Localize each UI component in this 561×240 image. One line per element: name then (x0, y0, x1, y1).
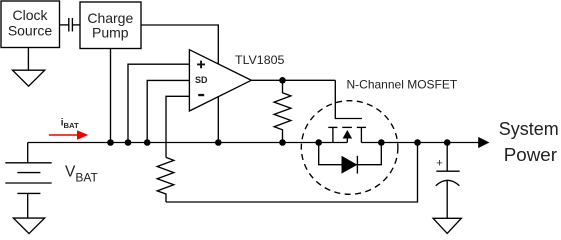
wire charge pump bottom to VBAT rail (110, 49, 112, 143)
junction output capacitor / rail (444, 139, 451, 146)
svg-text:Clock: Clock (12, 7, 48, 23)
body diode loop wire (319, 143, 382, 165)
battery plate long 1 (5, 162, 51, 164)
wire op-amp V- to rail (217, 96, 219, 142)
output capacitor C2 curved plate (436, 180, 460, 185)
resistor R1 (feedback divider) (157, 157, 174, 202)
wire clock source to ground (27, 48, 29, 71)
output capacitor C2 top plate (436, 170, 459, 172)
battery plate short 1 (17, 172, 40, 174)
output arrowhead (478, 137, 489, 148)
junction op-amp V- / rail (215, 139, 222, 146)
charge pump box (80, 2, 141, 49)
MOSFET Q1 body segment (342, 126, 352, 128)
iBAT red arrow (49, 130, 88, 139)
MOSFET Q1 drain segment (357, 126, 366, 128)
ground (output capacitor) (433, 218, 461, 233)
MOSFET body lead (346, 139, 348, 143)
junction feedback wire / rail (414, 139, 421, 146)
coupling capacitor C1 (69, 18, 73, 32)
MOSFET source leg (332, 127, 334, 142)
output capacitor C2 lead (446, 143, 448, 171)
svg-text:N-Channel MOSFET: N-Channel MOSFET (347, 77, 458, 91)
wire op-amp output to gate corner (251, 79, 335, 81)
battery bottom lead (27, 193, 29, 218)
svg-text:Power: Power (504, 144, 557, 165)
wire R1 bottom to system power node (166, 143, 418, 203)
junction charge pump / rail (107, 139, 114, 146)
body diode cathode bar (356, 156, 358, 174)
battery plate long 2 (5, 182, 51, 184)
op-amp U1 TLV1805 (189, 50, 251, 111)
junction SD input / rail (144, 139, 151, 146)
junction body diode left / rail (315, 139, 322, 146)
resistor R2 (gate pull-down) (274, 80, 291, 142)
MOSFET body arrow (343, 130, 353, 139)
op-amp plus label (197, 61, 205, 69)
ground (battery) (13, 218, 44, 234)
battery plate short 2 (17, 192, 40, 194)
svg-text:Pump: Pump (92, 24, 129, 40)
svg-text:Source: Source (8, 22, 53, 38)
wire gate drive down to MOSFET gate (335, 80, 362, 118)
svg-text:System: System (499, 119, 559, 139)
MOSFET Q1 source segment (328, 126, 337, 128)
svg-text:TLV1805: TLV1805 (235, 53, 284, 67)
VBAT rail right segment with output arrow (361, 142, 478, 144)
op-amp minus label (198, 94, 204, 96)
junction body diode right / rail (378, 139, 385, 146)
junction non-inverting input / rail (125, 139, 132, 146)
VBAT rail left segment (28, 142, 348, 144)
dashed circle around MOSFET (301, 101, 398, 195)
output capacitor bottom lead (446, 181, 448, 218)
junction output / R2 (279, 77, 286, 84)
svg-text:SD: SD (195, 75, 208, 85)
junction R2 / rail (279, 139, 286, 146)
body diode D1 (342, 156, 358, 174)
ground (clock source) (13, 70, 45, 86)
svg-text:+: + (436, 158, 442, 170)
wire clock source to coupling capacitor (60, 24, 69, 26)
wire coupling capacitor to charge pump (72, 24, 80, 26)
battery VBAT top lead (27, 143, 29, 163)
wire op-amp inverting input down to resistor R1 (166, 96, 189, 157)
MOSFET drain leg (360, 127, 362, 142)
clock source box (1, 1, 60, 48)
wire op-amp non-inverting input to rail (128, 64, 189, 142)
wire op-amp SD input to rail (147, 80, 189, 142)
wire charge pump output to op-amp V+ (141, 25, 218, 64)
